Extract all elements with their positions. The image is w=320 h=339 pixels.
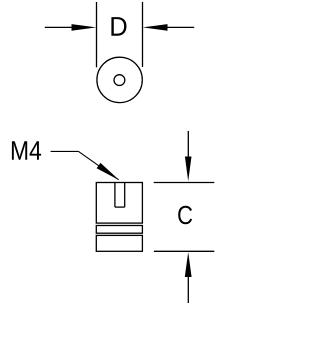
extension line top (C dimension) <box>154 182 215 184</box>
leader line horizontal segment <box>51 150 79 152</box>
dimension line bottom with arrow (C) <box>185 252 192 303</box>
slot right line <box>124 183 126 208</box>
inner circle (thread hole) <box>114 75 125 86</box>
leader arrowhead <box>97 163 120 181</box>
dimension line top with arrow (C) <box>185 131 192 181</box>
leader line diagonal segment <box>79 151 119 179</box>
extension line left (D dimension) <box>96 2 98 67</box>
groove band rectangle <box>96 226 142 234</box>
slot left line (tapped hole) <box>114 183 116 208</box>
dimension line left with arrow (D) <box>45 24 97 31</box>
extension line bottom (C dimension) <box>154 250 214 252</box>
base rectangle <box>96 235 142 251</box>
extension line right (D dimension) <box>142 2 144 67</box>
slot bottom line <box>115 206 125 208</box>
label D <box>111 17 126 36</box>
outer circle (top view body) <box>97 57 142 102</box>
dimension line right with arrow (D) <box>143 24 195 31</box>
body rectangle (side view) <box>96 183 142 224</box>
label M4 <box>12 141 41 160</box>
label C <box>178 206 192 225</box>
